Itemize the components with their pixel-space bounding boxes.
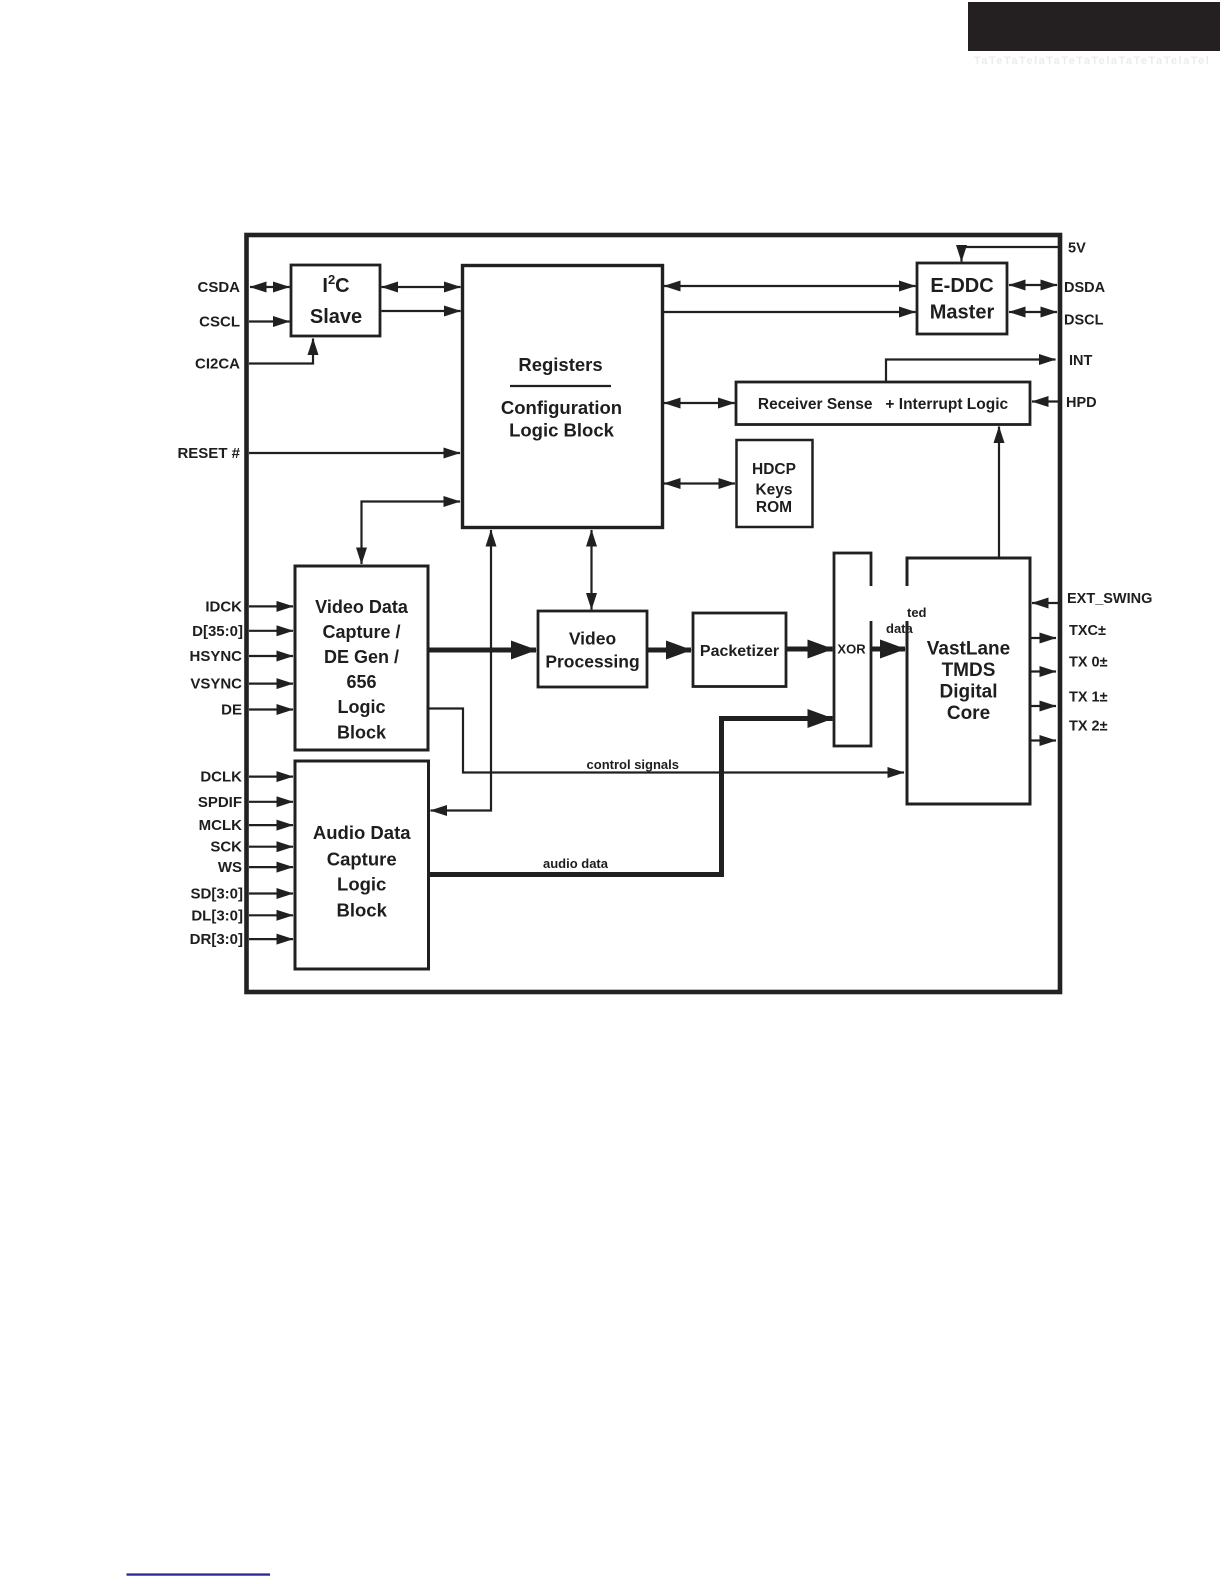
chip outer boundary xyxy=(247,235,1061,992)
bus audio data to XOR xyxy=(429,719,833,875)
svg-text:Capture /: Capture / xyxy=(322,622,400,642)
block Video Data Capture / DE Gen / 656 Logic Block xyxy=(295,566,428,750)
wire VastLane to Receiver Sense xyxy=(998,427,1000,559)
wire branch Registers / Video Data Capture xyxy=(362,502,461,565)
svg-text:RESET #: RESET # xyxy=(177,445,240,462)
svg-text:Logic: Logic xyxy=(338,697,386,717)
svg-text:Core: Core xyxy=(947,703,990,724)
svg-text:audio data: audio data xyxy=(543,856,609,871)
svg-text:TX 2±: TX 2± xyxy=(1069,719,1108,735)
svg-text:656: 656 xyxy=(346,672,376,692)
svg-text:Audio Data: Audio Data xyxy=(313,822,411,843)
block HDCP Keys ROM xyxy=(737,440,813,527)
wire CI2CA to I2C Slave bottom xyxy=(249,339,313,364)
svg-text:Digital: Digital xyxy=(939,682,997,703)
svg-text:5V: 5V xyxy=(1068,241,1086,257)
svg-text:DE: DE xyxy=(221,702,242,719)
wire DSDA (bidirectional) xyxy=(1009,284,1057,286)
bus Packetizer to XOR xyxy=(787,647,833,652)
svg-text:VastLane: VastLane xyxy=(927,639,1010,660)
wire SCK input xyxy=(249,846,293,848)
svg-text:CSCL: CSCL xyxy=(199,314,240,331)
svg-text:Configuration: Configuration xyxy=(501,397,622,418)
svg-text:Master: Master xyxy=(930,302,995,324)
wire SD[3:0] input xyxy=(249,892,293,894)
svg-text:TX 0±: TX 0± xyxy=(1069,655,1108,671)
svg-text:HDCP: HDCP xyxy=(752,461,796,478)
svg-text:DCLK: DCLK xyxy=(200,769,242,786)
svg-text:Processing: Processing xyxy=(545,652,639,672)
svg-text:Block: Block xyxy=(337,723,387,743)
wire TX0 output xyxy=(1030,670,1056,672)
block Registers / Configuration Logic Block xyxy=(463,266,663,528)
svg-text:Video: Video xyxy=(569,629,616,649)
wire HSYNC input xyxy=(249,655,293,657)
block VastLane TMDS Digital Core xyxy=(907,558,1030,804)
wire Registers to E-DDC Master (bidirectional) xyxy=(664,285,916,287)
wire 5V into E-DDC Master xyxy=(962,247,1060,262)
block Audio Data Capture Logic Block xyxy=(295,761,429,969)
svg-text:data: data xyxy=(886,621,914,636)
white-out patch over XOR / VastLane edges xyxy=(865,586,912,621)
svg-text:XOR: XOR xyxy=(837,642,866,657)
block Video Processing xyxy=(538,611,647,687)
svg-text:INT: INT xyxy=(1069,353,1093,369)
block Receiver Sense + Interrupt Logic xyxy=(736,382,1030,425)
wire Registers to Receiver Sense (bidirectional) xyxy=(664,402,735,404)
svg-text:TX 1±: TX 1± xyxy=(1069,690,1108,706)
svg-text:Receiver Sense + Interrupt L: Receiver Sense + Interrupt Logic xyxy=(758,396,1009,413)
wire IDCK input xyxy=(249,605,293,607)
svg-text:DE Gen /: DE Gen / xyxy=(324,647,399,667)
svg-text:Packetizer: Packetizer xyxy=(700,643,779,660)
svg-text:MCLK: MCLK xyxy=(199,817,242,834)
wire DE input xyxy=(249,708,293,710)
svg-text:control signals: control signals xyxy=(587,757,679,772)
wire I2C Slave to Registers lower xyxy=(382,310,461,312)
bus XOR to VastLane xyxy=(872,647,906,652)
redaction bar top right xyxy=(968,2,1220,51)
wire control signals to VastLane xyxy=(429,709,905,773)
svg-text:I2C: I2C xyxy=(322,272,349,297)
wire TXC output xyxy=(1030,637,1056,639)
svg-text:HSYNC: HSYNC xyxy=(189,648,242,665)
svg-text:HPD: HPD xyxy=(1066,395,1097,411)
wire Registers to E-DDC Master lower xyxy=(664,311,916,313)
svg-text:SD[3:0]: SD[3:0] xyxy=(190,886,243,903)
wire TX2 output xyxy=(1030,739,1056,741)
wire RESET# to Registers xyxy=(249,452,460,454)
wire DSCL (bidirectional) xyxy=(1009,311,1057,313)
svg-text:VSYNC: VSYNC xyxy=(190,676,242,693)
wire DL[3:0] input xyxy=(249,914,293,916)
svg-text:Slave: Slave xyxy=(310,306,362,328)
wire Registers to Video Processing (bidirectional) xyxy=(590,530,592,610)
svg-text:TXC±: TXC± xyxy=(1069,623,1106,639)
wire Registers to HDCP Keys ROM (bidirectional) xyxy=(664,482,735,484)
svg-text:CSDA: CSDA xyxy=(197,279,240,296)
svg-text:SCK: SCK xyxy=(210,839,242,856)
footer link line xyxy=(127,1573,271,1575)
svg-text:Logic Block: Logic Block xyxy=(509,420,615,441)
block Packetizer xyxy=(693,613,786,687)
wire DR[3:0] input xyxy=(249,938,293,940)
svg-text:EXT_SWING: EXT_SWING xyxy=(1067,591,1152,607)
svg-text:DR[3:0]: DR[3:0] xyxy=(190,931,243,948)
svg-text:Keys: Keys xyxy=(755,482,792,499)
wire Registers to Audio Data Capture (bidirectional) xyxy=(431,530,492,811)
wire HPD into Receiver Sense xyxy=(1032,400,1058,402)
svg-text:IDCK: IDCK xyxy=(205,599,242,616)
svg-text:Capture: Capture xyxy=(327,849,397,870)
wire I2C Slave to Registers (bidirectional) xyxy=(382,286,461,288)
svg-text:TMDS: TMDS xyxy=(942,660,996,681)
svg-text:SPDIF: SPDIF xyxy=(198,794,242,811)
svg-text:ted: ted xyxy=(907,605,927,620)
svg-text:Logic: Logic xyxy=(337,874,386,895)
wire WS input xyxy=(249,866,293,868)
wire D[35:0] input xyxy=(249,630,293,632)
block XOR xyxy=(834,553,871,746)
wire SPDIF input xyxy=(249,801,293,803)
svg-text:DL[3:0]: DL[3:0] xyxy=(191,908,243,925)
svg-text:Video Data: Video Data xyxy=(315,597,409,617)
svg-text:DSCL: DSCL xyxy=(1064,313,1104,329)
svg-text:TaTeTaTelaTaTeTaTelaTaTeTaTela: TaTeTaTelaTaTeTaTelaTaTeTaTelaTel xyxy=(974,55,1210,67)
wire EXT_SWING into VastLane xyxy=(1032,602,1058,604)
wire DCLK input xyxy=(249,775,293,777)
svg-text:Block: Block xyxy=(337,900,388,921)
svg-text:Registers: Registers xyxy=(518,354,602,375)
wire TX1 output xyxy=(1030,705,1056,707)
svg-text:ROM: ROM xyxy=(756,499,792,516)
svg-text:WS: WS xyxy=(218,859,242,876)
block E-DDC Master xyxy=(917,263,1007,334)
wire VSYNC input xyxy=(249,682,293,684)
wire CSCL to I2C Slave xyxy=(249,320,290,322)
block I2C Slave xyxy=(291,265,380,336)
wire MCLK input xyxy=(249,824,293,826)
svg-text:E-DDC: E-DDC xyxy=(930,275,993,297)
svg-text:DSDA: DSDA xyxy=(1064,280,1106,296)
bus Video Data Capture to Video Processing xyxy=(429,648,537,653)
wire CSDA to I2C Slave (bidirectional) xyxy=(250,286,290,288)
svg-text:CI2CA: CI2CA xyxy=(195,356,240,373)
bus Video Processing to Packetizer xyxy=(648,648,692,653)
wire INT from Receiver Sense xyxy=(886,360,1056,382)
svg-text:D[35:0]: D[35:0] xyxy=(192,623,243,640)
